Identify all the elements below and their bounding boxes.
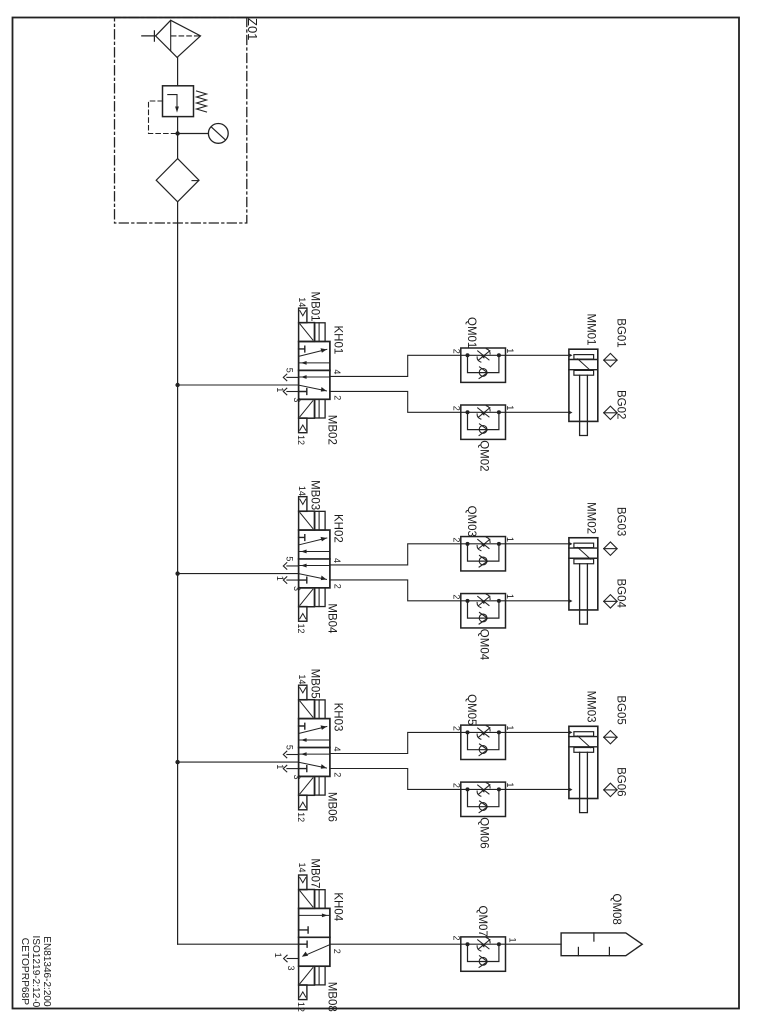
- wire KH04 port 2 to QM07: [330, 943, 461, 945]
- svg-text:KH04: KH04: [332, 892, 344, 921]
- svg-text:1: 1: [507, 938, 517, 943]
- svg-text:1: 1: [505, 594, 515, 599]
- svg-text:3: 3: [292, 397, 302, 402]
- svg-text:4: 4: [332, 558, 342, 563]
- pressure regulator: [163, 86, 207, 117]
- nozzle QM08: [561, 933, 642, 956]
- svg-text:2: 2: [452, 726, 462, 731]
- svg-text:1: 1: [505, 537, 515, 542]
- KH04 left cell: blocked 3: [299, 927, 309, 933]
- svg-text:5: 5: [284, 745, 294, 750]
- svg-text:ISO1219-2:12-0: ISO1219-2:12-0: [30, 936, 42, 1008]
- supply rail: [177, 202, 179, 944]
- svg-text:MB05: MB05: [309, 669, 321, 699]
- svg-text:QM01: QM01: [465, 317, 477, 348]
- KH04 left solenoid override box: [315, 890, 325, 909]
- svg-text:MB03: MB03: [309, 480, 321, 510]
- svg-text:2: 2: [452, 783, 462, 788]
- svg-text:3: 3: [292, 775, 302, 780]
- svg-text:1: 1: [275, 764, 285, 769]
- svg-text:2: 2: [332, 395, 342, 400]
- KH04 right cell: path 2->3 diagonal arrow down: [305, 945, 330, 956]
- svg-text:2: 2: [452, 594, 462, 599]
- svg-text:QM02: QM02: [478, 440, 490, 471]
- valve KH03 (5/2 double solenoid): [283, 685, 330, 810]
- svg-text:BG04: BG04: [615, 579, 627, 609]
- svg-text:14: 14: [297, 486, 307, 496]
- valve KH01 (5/2 double solenoid): [283, 308, 330, 433]
- KH04 port 3 exhaust: [284, 955, 299, 962]
- inlet separator with water trap: [142, 20, 201, 57]
- svg-text:MB04: MB04: [325, 603, 337, 634]
- wires group 3: outputs 4/2 to flow controls and cylinder, supply riser: [175, 732, 569, 789]
- svg-text:KH02: KH02: [332, 514, 344, 543]
- flow control QM02: [461, 405, 506, 439]
- svg-text:MB08: MB08: [325, 982, 337, 1012]
- svg-text:2: 2: [452, 349, 462, 354]
- svg-text:1: 1: [505, 348, 515, 353]
- KH04 supply riser port 1 (rail end elbow): [178, 943, 299, 945]
- svg-text:MM02: MM02: [585, 502, 597, 534]
- wires group 2: outputs 4/2 to flow controls and cylinder, supply riser: [175, 544, 569, 601]
- svg-text:4: 4: [332, 369, 342, 374]
- KH04 right pilot box 12: [299, 985, 307, 1000]
- svg-text:BG01: BG01: [615, 318, 627, 347]
- svg-text:12: 12: [296, 1002, 306, 1012]
- svg-text:1: 1: [275, 576, 285, 581]
- svg-text:1: 1: [275, 387, 285, 392]
- svg-text:BG03: BG03: [615, 507, 627, 536]
- svg-text:MB07: MB07: [309, 858, 321, 888]
- svg-text:14: 14: [297, 863, 307, 873]
- svg-text:QM07: QM07: [476, 906, 488, 937]
- svg-text:1: 1: [505, 405, 515, 410]
- svg-text:MB01: MB01: [309, 292, 321, 322]
- svg-text:2: 2: [332, 772, 342, 777]
- svg-text:12: 12: [296, 435, 306, 445]
- KH04 left cell: path 1->2 straight arrow up: [299, 914, 330, 916]
- svg-text:4: 4: [332, 747, 342, 752]
- flow control QM06: [461, 782, 506, 816]
- cylinder MM01 with sensors BG01/BG02: [569, 349, 617, 435]
- svg-text:2: 2: [452, 537, 462, 542]
- svg-text:1: 1: [273, 953, 283, 958]
- pressure gauge: [178, 123, 229, 143]
- svg-text:EN81346-2:200: EN81346-2:200: [41, 936, 53, 1006]
- node gauge tee: [175, 131, 179, 135]
- svg-text:14: 14: [297, 674, 307, 684]
- svg-text:2: 2: [452, 936, 462, 941]
- svg-text:3: 3: [292, 586, 302, 591]
- flow control QM01: [461, 348, 506, 382]
- svg-text:12: 12: [296, 624, 306, 634]
- svg-text:MB06: MB06: [325, 792, 337, 822]
- svg-text:CETOPRP68P: CETOPRP68P: [19, 938, 31, 1005]
- KH04 left solenoid MB07 box: [299, 890, 315, 909]
- svg-text:QM06: QM06: [478, 817, 490, 848]
- svg-text:QM03: QM03: [465, 506, 477, 537]
- flow control QM05: [461, 725, 506, 759]
- wire QM07 to QM08: [506, 943, 562, 945]
- svg-text:1: 1: [505, 725, 515, 730]
- svg-text:BG06: BG06: [615, 767, 627, 796]
- valve KH04 body (3/2): [299, 908, 330, 966]
- filter: [156, 159, 199, 202]
- svg-text:2: 2: [332, 949, 342, 954]
- KH04 right solenoid MB08 box: [299, 966, 315, 985]
- svg-text:5: 5: [284, 368, 294, 373]
- KH04 right solenoid override box: [315, 966, 325, 985]
- cylinder MM03 with sensors BG05/BG06: [569, 726, 617, 812]
- svg-text:1: 1: [505, 782, 515, 787]
- svg-text:QM05: QM05: [465, 694, 477, 725]
- wire separator to regulator: [177, 57, 179, 85]
- svg-text:KH03: KH03: [332, 703, 344, 732]
- svg-text:12: 12: [296, 812, 306, 822]
- svg-text:QM08: QM08: [610, 894, 622, 925]
- air service unit Z01 enclosure: [115, 18, 247, 224]
- regulator pilot line (dashed): [149, 101, 178, 134]
- svg-text:MM03: MM03: [585, 691, 597, 723]
- svg-text:MB02: MB02: [325, 415, 337, 445]
- svg-text:2: 2: [452, 406, 462, 411]
- flow control QM04: [461, 594, 506, 628]
- cylinder MM02 with sensors BG03/BG04: [569, 538, 617, 624]
- KH04 right cell: blocked 1: [299, 941, 308, 947]
- svg-text:3: 3: [286, 966, 296, 971]
- svg-text:2: 2: [332, 584, 342, 589]
- svg-text:5: 5: [284, 556, 294, 561]
- svg-text:BG02: BG02: [615, 390, 627, 419]
- flow control QM07: [461, 937, 506, 971]
- svg-text:MM01: MM01: [585, 314, 597, 346]
- valve KH02 (5/2 double solenoid): [283, 497, 330, 622]
- svg-text:QM04: QM04: [478, 629, 490, 661]
- svg-text:Z01: Z01: [245, 18, 260, 40]
- svg-text:14: 14: [297, 297, 307, 307]
- svg-text:KH01: KH01: [332, 326, 344, 355]
- wire regulator to filter: [177, 117, 179, 159]
- flow control QM03: [461, 537, 506, 571]
- wires group 1: outputs 4/2 to flow controls and cylinder, supply riser: [175, 355, 569, 412]
- KH04 left pilot box 14: [299, 875, 307, 890]
- svg-text:BG05: BG05: [615, 695, 627, 724]
